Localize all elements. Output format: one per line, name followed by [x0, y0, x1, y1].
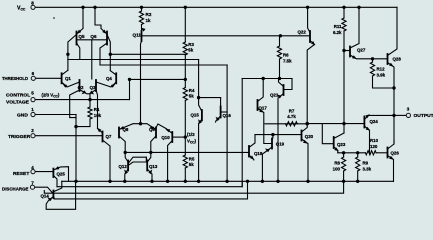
svg-text:R2: R2: [146, 12, 152, 17]
svg-text:OUTPUT: OUTPUT: [414, 113, 433, 119]
svg-text:7.5k: 7.5k: [283, 59, 292, 64]
svg-text:Q27: Q27: [357, 48, 366, 53]
svg-text:R5: R5: [189, 157, 195, 162]
svg-text:1k: 1k: [146, 18, 152, 23]
svg-text:Q28: Q28: [393, 56, 402, 61]
svg-text:Q10: Q10: [161, 135, 170, 140]
svg-text:5k: 5k: [188, 47, 193, 52]
svg-text:Q22: Q22: [298, 29, 307, 34]
svg-text:3: 3: [407, 107, 410, 112]
svg-text:5k: 5k: [189, 94, 194, 99]
svg-text:Q15: Q15: [191, 112, 200, 117]
svg-text:GND: GND: [17, 113, 28, 119]
svg-text:Q3: Q3: [90, 85, 96, 90]
svg-text:RESET: RESET: [13, 171, 29, 177]
svg-text:DISCHARGE: DISCHARGE: [2, 186, 29, 192]
svg-text:VCC): VCC): [187, 139, 197, 145]
svg-text:R9: R9: [363, 160, 369, 165]
svg-text:Q17: Q17: [259, 105, 268, 110]
svg-text:Q8: Q8: [123, 127, 129, 132]
svg-text:Q11: Q11: [133, 32, 142, 37]
svg-text:Q14: Q14: [41, 193, 50, 198]
svg-text:Q13: Q13: [149, 164, 158, 169]
svg-text:5k: 5k: [189, 162, 194, 167]
svg-text:Q18: Q18: [254, 151, 263, 156]
svg-text:Q26: Q26: [391, 151, 400, 156]
svg-text:(1/3: (1/3: [187, 132, 195, 137]
svg-text:TRIGGER: TRIGGER: [8, 134, 31, 140]
svg-text:VOLTAGE: VOLTAGE: [6, 99, 30, 105]
svg-text:7: 7: [31, 181, 34, 186]
svg-text:CONTROL: CONTROL: [6, 92, 30, 98]
svg-text:Q4: Q4: [106, 76, 112, 81]
svg-text:R10: R10: [370, 138, 379, 143]
svg-text:R11: R11: [334, 24, 342, 29]
svg-text:THRESHOLD: THRESHOLD: [2, 76, 28, 82]
svg-text:3.3k: 3.3k: [363, 167, 372, 172]
svg-text:R4: R4: [189, 88, 195, 93]
svg-text:Q2: Q2: [78, 85, 84, 90]
svg-text:Q25: Q25: [57, 172, 66, 177]
svg-text:R8: R8: [334, 160, 340, 165]
svg-text:Q24: Q24: [370, 119, 379, 124]
svg-text:R6: R6: [283, 53, 289, 58]
svg-text:10k: 10k: [94, 113, 102, 118]
svg-text:5: 5: [31, 91, 34, 96]
svg-text:3.9k: 3.9k: [377, 72, 386, 77]
svg-text:Q19: Q19: [276, 142, 285, 147]
svg-text:Q6: Q6: [90, 34, 97, 39]
svg-text:Q7: Q7: [106, 134, 112, 139]
svg-text:R7: R7: [289, 108, 295, 113]
svg-text:Q21: Q21: [270, 93, 279, 98]
svg-text:4: 4: [31, 165, 34, 170]
svg-text:Q1: Q1: [65, 76, 71, 81]
svg-text:R12: R12: [377, 66, 386, 71]
svg-text:120: 120: [370, 144, 378, 149]
svg-text:6.2k: 6.2k: [333, 30, 342, 35]
svg-text:100: 100: [333, 167, 341, 172]
svg-text:Q23: Q23: [337, 142, 346, 147]
svg-text:Q5: Q5: [78, 34, 85, 39]
svg-text:R1: R1: [94, 107, 100, 112]
svg-text:Q12: Q12: [119, 164, 128, 169]
svg-text:R3: R3: [188, 42, 194, 47]
svg-text:Q20: Q20: [305, 134, 314, 139]
svg-text:6: 6: [32, 71, 35, 76]
svg-text:2: 2: [31, 128, 34, 133]
svg-text:Q9: Q9: [149, 127, 155, 132]
svg-text:Q16: Q16: [223, 113, 232, 118]
svg-text:(2/3 VCC): (2/3 VCC): [42, 93, 60, 99]
svg-text:4.7k: 4.7k: [287, 114, 296, 119]
svg-text:1: 1: [31, 107, 34, 112]
svg-text:8: 8: [31, 1, 34, 6]
